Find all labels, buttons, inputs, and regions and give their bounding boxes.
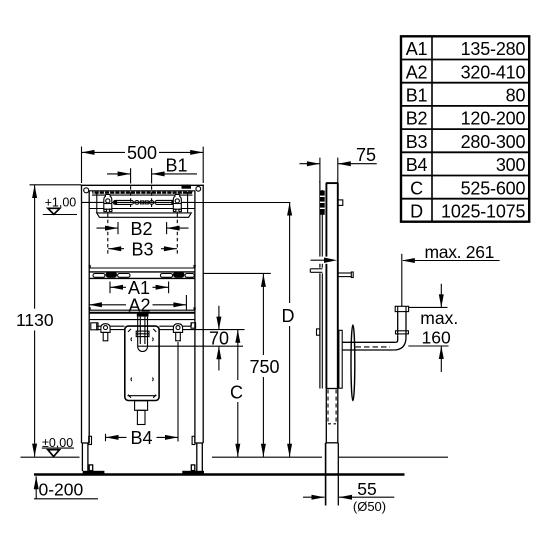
dimension B3 bbox=[108, 214, 178, 260]
side left pin bbox=[310, 268, 323, 274]
lower crossbar flange bbox=[97, 323, 192, 330]
svg-text:B1: B1 bbox=[406, 86, 428, 106]
plate screw mark 2 bbox=[151, 338, 154, 341]
dimension 70 bbox=[209, 306, 229, 371]
traverse end plates bbox=[96, 192, 98, 213]
dimension D reference line bbox=[181, 202, 290, 204]
top corner screw left bbox=[84, 188, 89, 193]
plate screw mark 1 bbox=[130, 338, 133, 341]
leg clamp notch left bbox=[89, 436, 92, 444]
svg-text:0-200: 0-200 bbox=[39, 480, 84, 500]
svg-text:D: D bbox=[410, 202, 423, 222]
svg-text:C: C bbox=[410, 178, 423, 198]
svg-text:120-200: 120-200 bbox=[461, 109, 526, 129]
plate corner mark BL bbox=[128, 395, 131, 398]
svg-text:B3: B3 bbox=[406, 132, 428, 152]
svg-text:320-410: 320-410 bbox=[461, 62, 526, 82]
side leg inner joint dashed bbox=[328, 423, 336, 425]
dimension 750 bbox=[249, 274, 279, 457]
side leg telescopic dashes bbox=[328, 390, 336, 425]
dimension 1130 bbox=[16, 185, 54, 457]
rail rivet nubs bbox=[89, 265, 91, 268]
svg-text:B2: B2 bbox=[130, 219, 152, 239]
side toothed rack (black) bbox=[320, 191, 325, 215]
right foot base bbox=[182, 471, 204, 474]
traverse slot centre marks bbox=[135, 201, 140, 205]
dimension 0-200 bbox=[34, 476, 98, 499]
side left small tab bbox=[317, 329, 320, 335]
side basin stud bbox=[338, 272, 353, 278]
plate corner mark TR bbox=[153, 329, 156, 332]
right foot lip bbox=[191, 465, 195, 471]
finished floor level line right bbox=[339, 456, 449, 458]
svg-text:80: 80 bbox=[506, 86, 526, 106]
frame left rail bbox=[82, 185, 90, 443]
svg-text:B3: B3 bbox=[131, 240, 153, 260]
table grid bbox=[401, 36, 529, 221]
frame top edge bbox=[81, 184, 204, 186]
svg-text:A2: A2 bbox=[406, 62, 428, 82]
svg-text:+1,00: +1,00 bbox=[45, 195, 77, 209]
raw floor slab thick line bbox=[34, 473, 405, 476]
dimension 750 reference line bbox=[204, 272, 271, 274]
fixing bolt top-right bbox=[173, 194, 181, 213]
svg-text:max.: max. bbox=[420, 308, 458, 328]
svg-text:160: 160 bbox=[422, 327, 451, 347]
svg-text:280-300: 280-300 bbox=[461, 132, 526, 152]
svg-text:75: 75 bbox=[356, 145, 376, 165]
dimension 55 bbox=[303, 479, 394, 514]
finished floor level line centre bbox=[212, 456, 322, 458]
side wall-fixing tab bbox=[338, 200, 343, 206]
mounting plate bbox=[125, 326, 159, 400]
dimension A1 bbox=[110, 278, 169, 298]
svg-text:1130: 1130 bbox=[16, 310, 54, 330]
top traverse (washbasin fixing crossbar) bbox=[89, 191, 195, 209]
plate bottom inner line bbox=[128, 395, 157, 397]
lower bolt right bbox=[173, 324, 182, 341]
lower nut left bbox=[91, 323, 98, 330]
side mid arrow mark bbox=[311, 257, 338, 264]
top edge extension line bbox=[30, 184, 82, 186]
slot outer nubs bbox=[113, 201, 117, 204]
plate screw mark 3 bbox=[130, 378, 133, 381]
level mark +1,00 bbox=[43, 195, 77, 214]
svg-text:300: 300 bbox=[496, 155, 526, 175]
svg-text:525-600: 525-600 bbox=[461, 178, 526, 198]
side post outline bbox=[320, 181, 322, 389]
svg-text:(Ø50): (Ø50) bbox=[353, 499, 386, 514]
svg-text:1025-1075: 1025-1075 bbox=[441, 202, 525, 222]
side foot tube / waste pipe below floor bbox=[326, 443, 339, 506]
dimension 70 reference lines bbox=[159, 329, 173, 331]
drain pipe elbow collar bbox=[396, 331, 409, 334]
drain socket bbox=[135, 401, 148, 425]
middle rail bolt head right (black) bbox=[173, 272, 184, 278]
drain vertical pipe bbox=[398, 312, 406, 336]
side foot joint bbox=[326, 442, 339, 444]
dimension D bbox=[282, 203, 295, 457]
leg clamp notch right bbox=[192, 436, 195, 444]
drain tube cap bbox=[137, 313, 149, 316]
drain tube clamp bbox=[136, 331, 149, 337]
lower bolt left bbox=[101, 324, 110, 341]
svg-text:C: C bbox=[230, 382, 243, 402]
svg-text:A1: A1 bbox=[406, 39, 428, 59]
svg-text:500: 500 bbox=[127, 143, 157, 163]
middle rail slots bbox=[93, 274, 105, 278]
side wall disc bbox=[351, 325, 355, 401]
lower crossbar bbox=[89, 310, 195, 319]
svg-text:750: 750 bbox=[249, 357, 279, 377]
left foot base bbox=[83, 471, 105, 474]
dimension table bbox=[401, 36, 529, 221]
middle rail (basin bracket rail) bbox=[89, 268, 195, 278]
drain pipe inner slip joint (dashed) bbox=[356, 346, 391, 348]
left foot lip bbox=[89, 465, 93, 471]
traverse slot right bbox=[155, 200, 175, 204]
svg-text:70: 70 bbox=[209, 329, 229, 349]
top corner screw right bbox=[196, 186, 201, 191]
svg-text:B4: B4 bbox=[406, 155, 428, 175]
svg-text:max. 261: max. 261 bbox=[425, 242, 495, 262]
traverse flange plate bbox=[97, 213, 192, 217]
toothed rail hatch bbox=[93, 192, 193, 194]
side drain bracket bbox=[339, 330, 342, 388]
middle rail bolt head left (black) bbox=[106, 272, 117, 278]
traverse slot centreline bbox=[82, 201, 195, 203]
plate corner mark BR bbox=[153, 395, 156, 398]
svg-text:B4: B4 bbox=[130, 428, 152, 448]
svg-text:D: D bbox=[282, 306, 295, 326]
level mark ±0,00 bbox=[21, 436, 80, 457]
plate screw mark 4 bbox=[151, 378, 154, 381]
left leg lower bbox=[82, 443, 90, 471]
dimension 75 bbox=[300, 145, 377, 183]
svg-text:A2: A2 bbox=[128, 296, 150, 316]
table text bbox=[406, 39, 526, 221]
svg-text:135-280: 135-280 bbox=[461, 39, 526, 59]
drain pipe top collar bbox=[395, 306, 408, 311]
right leg lower bbox=[196, 443, 204, 471]
svg-text:B1: B1 bbox=[165, 155, 187, 175]
dimension max. 261 bbox=[402, 242, 500, 306]
fixing bolt top-left bbox=[104, 194, 112, 213]
top hanger black tab bbox=[182, 185, 192, 189]
lower nut right bbox=[191, 323, 196, 328]
dimension C bbox=[230, 330, 243, 457]
drain tube body bbox=[138, 317, 148, 352]
svg-text:55: 55 bbox=[357, 479, 376, 499]
traverse slot left bbox=[114, 200, 134, 204]
dimension 500 bbox=[82, 143, 204, 183]
dimension B4 bbox=[106, 342, 179, 448]
plate corner mark TL bbox=[128, 329, 131, 332]
dimension B2 bbox=[97, 219, 189, 239]
dimension B1 bbox=[107, 155, 197, 207]
frame right rail bbox=[195, 185, 203, 443]
side leg tube bbox=[326, 389, 338, 443]
dimension A2 bbox=[89, 295, 186, 316]
side leg upper joint bbox=[326, 388, 338, 390]
side post channel (thick profile) bbox=[326, 183, 338, 388]
svg-text:B2: B2 bbox=[406, 109, 428, 129]
dimension max. 160 bbox=[408, 284, 458, 372]
drain elbow bend bbox=[393, 334, 406, 350]
drain elbow horizontal pipe bbox=[342, 342, 395, 350]
